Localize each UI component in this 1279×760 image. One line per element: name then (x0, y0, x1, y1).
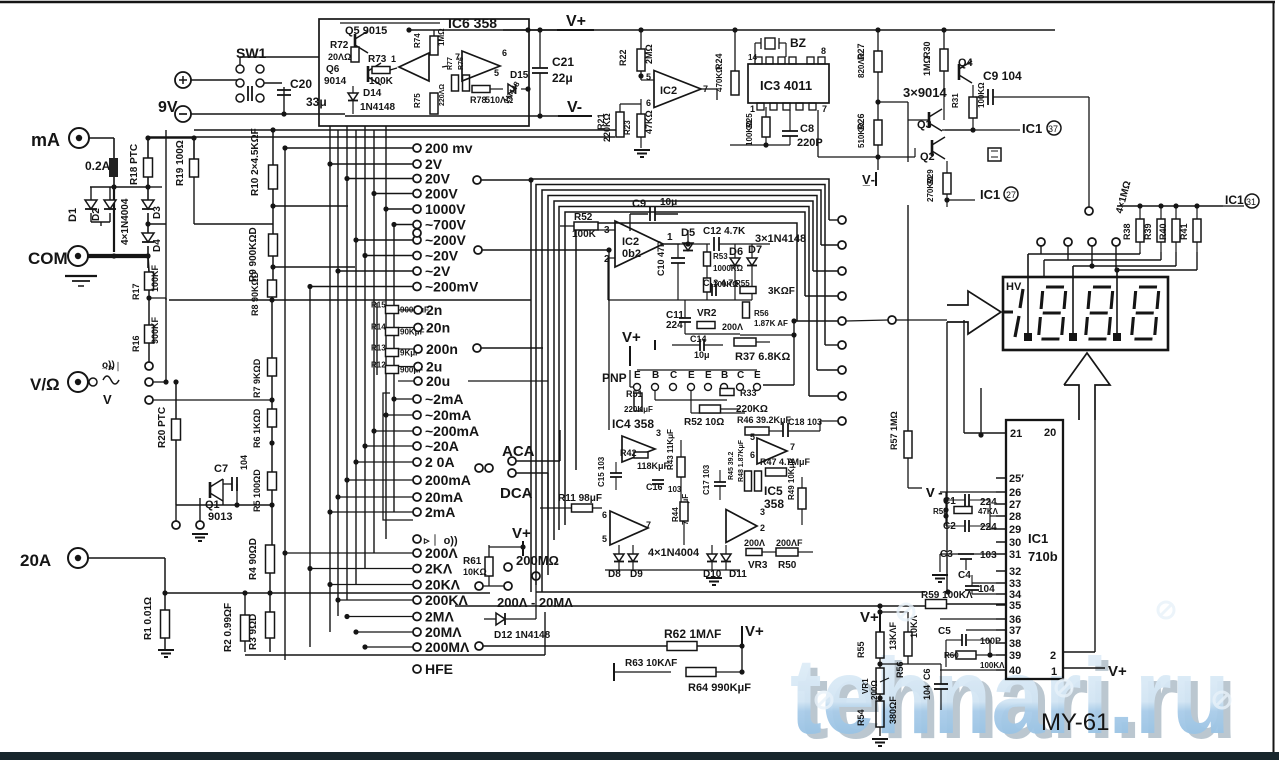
svg-text:R31: R31 (951, 93, 960, 108)
svg-text:224: 224 (980, 522, 997, 533)
svg-text:R14: R14 (371, 323, 386, 332)
svg-text:29: 29 (1009, 524, 1021, 536)
svg-text:470KΩ: 470KΩ (715, 66, 724, 92)
svg-text:1: 1 (667, 232, 673, 243)
svg-text:200MΛ: 200MΛ (425, 639, 470, 655)
svg-text:R18 PTC: R18 PTC (129, 144, 140, 185)
svg-text:IC3 4011: IC3 4011 (760, 78, 812, 93)
svg-text:R13: R13 (371, 344, 386, 353)
svg-text:D12 1N4148: D12 1N4148 (494, 630, 551, 641)
svg-text:C14: C14 (690, 334, 707, 344)
svg-text:C10 47P: C10 47P (656, 241, 666, 276)
svg-text:C12 4.7K: C12 4.7K (703, 226, 746, 237)
svg-text:R33: R33 (740, 388, 757, 398)
svg-text:R2 0.99ΩF: R2 0.99ΩF (223, 603, 234, 652)
svg-text:5: 5 (750, 432, 755, 442)
svg-text:2 0A: 2 0A (425, 454, 455, 470)
svg-text:35: 35 (1009, 600, 1021, 612)
svg-text:C7: C7 (214, 463, 228, 475)
svg-text:200V: 200V (425, 186, 458, 202)
svg-text:R11 98μF: R11 98μF (558, 493, 602, 504)
svg-text:~20mA: ~20mA (425, 407, 471, 423)
svg-text:27: 27 (1009, 499, 1021, 511)
svg-text:Q1: Q1 (205, 499, 220, 511)
svg-text:1MΩ: 1MΩ (922, 56, 932, 76)
svg-text:5: 5 (602, 534, 607, 544)
svg-text:1: 1 (750, 104, 755, 114)
svg-text:7: 7 (822, 104, 827, 114)
svg-text:31: 31 (1009, 549, 1021, 561)
svg-text:100KF: 100KF (150, 264, 160, 292)
svg-text:R40: R40 (1158, 223, 1168, 240)
svg-text:2MΛ: 2MΛ (425, 609, 454, 625)
svg-text:9014: 9014 (324, 76, 347, 87)
svg-text:C₁3 4.7: C₁3 4.7 (703, 278, 733, 288)
svg-text:6: 6 (602, 510, 607, 520)
svg-text:E: E (634, 370, 641, 381)
svg-text:33μ: 33μ (306, 95, 327, 109)
svg-text:~2V: ~2V (425, 263, 451, 279)
svg-text:C: C (670, 370, 677, 381)
svg-text:R57 1MΩ: R57 1MΩ (889, 411, 899, 450)
svg-text:2KΛ: 2KΛ (425, 561, 453, 577)
svg-text:820ΛΩ: 820ΛΩ (857, 52, 866, 78)
svg-text:20: 20 (1044, 427, 1056, 439)
svg-text:~700V: ~700V (425, 217, 467, 233)
svg-text:200ΛF: 200ΛF (776, 538, 803, 548)
svg-text:R49 10KμF: R49 10KμF (787, 459, 796, 500)
svg-text:IC1: IC1 (1022, 121, 1042, 136)
svg-text:D11: D11 (729, 569, 747, 580)
svg-text:30: 30 (1009, 537, 1021, 549)
svg-text:V̲-: V̲- (862, 172, 875, 187)
svg-text:7: 7 (790, 442, 795, 452)
svg-text:R30: R30 (922, 41, 932, 58)
svg-text:104: 104 (978, 584, 995, 595)
svg-text:2MΩ: 2MΩ (644, 44, 654, 64)
svg-text:R41: R41 (1179, 223, 1189, 240)
svg-text:IC5: IC5 (764, 484, 783, 498)
svg-text:220ΛΩ: 220ΛΩ (439, 84, 446, 106)
svg-text:3×9014: 3×9014 (903, 85, 948, 100)
svg-text:tehnari.ru: tehnari.ru (790, 635, 1230, 756)
svg-text:E: E (688, 370, 695, 381)
svg-text:V+: V+ (860, 609, 879, 626)
svg-text:2: 2 (760, 523, 765, 533)
svg-text:25′: 25′ (1009, 473, 1024, 485)
svg-text:R19 100Ω: R19 100Ω (175, 140, 186, 186)
svg-text:R10 2×4.5KΩF: R10 2×4.5KΩF (250, 128, 261, 196)
svg-text:31: 31 (1246, 197, 1256, 207)
svg-text:D9: D9 (630, 569, 643, 580)
svg-text:R74: R74 (413, 33, 422, 48)
svg-text:R38: R38 (1122, 223, 1132, 240)
svg-text:Q6: Q6 (326, 64, 340, 75)
svg-text:D7: D7 (748, 244, 762, 256)
svg-text:14: 14 (748, 53, 757, 62)
svg-text:D15: D15 (510, 70, 529, 81)
svg-text:C17 103: C17 103 (702, 464, 711, 495)
svg-text:10μ: 10μ (694, 350, 710, 360)
svg-text:220P: 220P (797, 137, 823, 149)
svg-text:100KΩ: 100KΩ (977, 82, 986, 108)
svg-text:510KΩ: 510KΩ (857, 122, 866, 148)
svg-text:2: 2 (604, 254, 610, 265)
svg-text:~20A: ~20A (425, 438, 459, 454)
svg-text:100K: 100K (572, 229, 597, 240)
svg-text:IC2: IC2 (622, 236, 639, 248)
svg-text:200mA: 200mA (425, 472, 471, 488)
svg-text:DCA: DCA (500, 485, 533, 502)
svg-text:2mA: 2mA (425, 504, 455, 520)
svg-text:32: 32 (1009, 566, 1021, 578)
svg-text:D8: D8 (608, 569, 621, 580)
svg-text:R20 PTC: R20 PTC (157, 407, 168, 448)
svg-text:V+: V+ (622, 329, 641, 346)
svg-text:C4: C4 (958, 570, 971, 581)
svg-text:200Λ: 200Λ (744, 538, 765, 548)
svg-text:3: 3 (760, 507, 765, 517)
svg-text:20KΛ: 20KΛ (425, 577, 461, 593)
svg-text:R62 1MΛF: R62 1MΛF (664, 627, 721, 641)
svg-text:R8 90KΩD: R8 90KΩD (250, 271, 260, 316)
svg-text:R61: R61 (463, 556, 482, 567)
svg-text:V+: V+ (745, 623, 764, 640)
svg-text:MY-61: MY-61 (1041, 709, 1109, 736)
svg-text:IC6 358: IC6 358 (448, 15, 497, 31)
svg-text:B: B (721, 370, 728, 381)
svg-text:IC1: IC1 (1028, 531, 1048, 546)
svg-text:IC1: IC1 (1225, 193, 1244, 207)
svg-text:HV: HV (1006, 281, 1022, 293)
svg-text:22μ: 22μ (552, 71, 573, 85)
svg-text:IC2: IC2 (660, 85, 677, 97)
svg-text:C18 103: C18 103 (788, 417, 822, 427)
svg-text:R75: R75 (413, 93, 422, 108)
svg-text:20u: 20u (426, 373, 450, 389)
svg-text:~200mA: ~200mA (425, 423, 479, 439)
svg-text:E: E (705, 370, 712, 381)
svg-text:220KΩ: 220KΩ (602, 113, 612, 142)
svg-text:1000V: 1000V (425, 201, 466, 217)
svg-text:200Λ: 200Λ (722, 322, 743, 332)
svg-text:C20: C20 (290, 77, 312, 91)
svg-text:37: 37 (1048, 124, 1058, 134)
svg-text:V+: V+ (566, 13, 586, 30)
svg-text:9013: 9013 (208, 511, 232, 523)
svg-text:20V: 20V (425, 171, 451, 187)
svg-text:IC4 358: IC4 358 (612, 417, 654, 431)
svg-text:10μ: 10μ (660, 197, 677, 208)
svg-text:C21: C21 (552, 55, 574, 69)
svg-text:o)): o)) (102, 360, 115, 371)
svg-text:3×1N4148: 3×1N4148 (755, 233, 806, 245)
svg-text:200Λ: 200Λ (425, 545, 458, 561)
svg-text:27: 27 (1006, 190, 1016, 200)
svg-text:R73: R73 (368, 54, 387, 65)
svg-text:BZ: BZ (790, 36, 806, 50)
svg-text:47KΩ: 47KΩ (644, 110, 654, 134)
svg-text:Q3: Q3 (917, 119, 932, 131)
svg-text:D1: D1 (67, 208, 79, 222)
svg-text:D6: D6 (729, 246, 743, 258)
svg-text:C9 104: C9 104 (983, 69, 1022, 83)
svg-text:47KΛ: 47KΛ (978, 507, 999, 516)
svg-text:R50: R50 (778, 560, 797, 571)
svg-text:R44: R44 (671, 507, 680, 522)
svg-text:200Λ - 20MΛ: 200Λ - 20MΛ (497, 595, 573, 610)
svg-text:200MΩ: 200MΩ (516, 553, 559, 568)
svg-text:mA: mA (31, 130, 60, 150)
svg-text:R64 990KμF: R64 990KμF (688, 682, 751, 694)
svg-text:6: 6 (646, 98, 651, 108)
svg-text:200n: 200n (426, 341, 458, 357)
svg-text:118KμF: 118KμF (637, 461, 670, 471)
svg-text:104: 104 (239, 455, 249, 470)
svg-text:9V: 9V (158, 99, 178, 116)
svg-text:V-: V- (567, 99, 582, 116)
svg-text:100K: 100K (369, 76, 394, 87)
svg-text:3KΩF: 3KΩF (768, 286, 795, 297)
svg-text:10KΩ: 10KΩ (463, 567, 487, 577)
svg-text:103: 103 (668, 485, 682, 494)
svg-text:R37 6.8KΩ: R37 6.8KΩ (735, 351, 790, 363)
svg-text:220KμF: 220KμF (624, 405, 653, 414)
svg-text:~200V: ~200V (425, 232, 467, 248)
svg-text:20A: 20A (20, 551, 51, 570)
svg-text:4×1N4004: 4×1N4004 (648, 547, 700, 559)
svg-text:R77: R77 (447, 57, 454, 70)
svg-text:6: 6 (750, 450, 755, 460)
svg-text:R12: R12 (371, 361, 386, 370)
svg-text:2n: 2n (426, 302, 442, 318)
svg-text:R7 9KΩD: R7 9KΩD (252, 358, 262, 398)
svg-text:R15: R15 (371, 301, 386, 310)
svg-text:R16: R16 (131, 335, 141, 352)
svg-text:4×1N4004: 4×1N4004 (120, 198, 131, 245)
svg-text:R51: R51 (626, 389, 643, 399)
svg-text:R53: R53 (713, 252, 728, 261)
svg-text:D4: D4 (152, 239, 163, 252)
svg-text:R23: R23 (623, 120, 632, 135)
svg-text:R6 1KΩD: R6 1KΩD (252, 408, 262, 448)
svg-text:C: C (737, 370, 744, 381)
svg-text:R4 90ΩD: R4 90ΩD (248, 538, 259, 580)
svg-text:20mA: 20mA (425, 489, 463, 505)
svg-text:C8: C8 (800, 123, 814, 135)
svg-text:1MΩ: 1MΩ (437, 28, 446, 46)
svg-text:COM: COM (28, 249, 68, 268)
svg-text:R1 0.01Ω: R1 0.01Ω (143, 597, 154, 640)
svg-text:20ΛΩ: 20ΛΩ (328, 52, 351, 62)
svg-text:28: 28 (1009, 511, 1021, 523)
svg-text:B: B (652, 370, 659, 381)
svg-text:200 mv: 200 mv (425, 140, 473, 156)
svg-text:IC1: IC1 (980, 187, 1000, 202)
svg-text:5: 5 (494, 68, 499, 78)
svg-text:1N4148: 1N4148 (360, 102, 395, 113)
svg-text:~200mV: ~200mV (425, 279, 479, 295)
svg-text:R42: R42 (620, 448, 637, 458)
svg-text:R17: R17 (131, 283, 141, 300)
svg-text:710b: 710b (1028, 549, 1058, 564)
svg-text:D3: D3 (152, 206, 163, 219)
svg-text:C15 103: C15 103 (597, 456, 606, 487)
svg-text:3: 3 (656, 428, 661, 438)
svg-text:V: V (103, 392, 112, 407)
svg-text:0b2: 0b2 (622, 248, 641, 260)
svg-text:C9: C9 (632, 198, 646, 210)
svg-text:ACA: ACA (502, 443, 535, 460)
svg-text:R39: R39 (1143, 223, 1153, 240)
svg-text:20n: 20n (426, 320, 450, 336)
svg-text:26: 26 (1009, 487, 1021, 499)
svg-text:6: 6 (502, 48, 507, 58)
svg-text:R55: R55 (735, 279, 750, 288)
svg-text:103: 103 (980, 550, 997, 561)
svg-text:R56: R56 (754, 309, 769, 318)
svg-text:R47 4.7MμF: R47 4.7MμF (760, 457, 811, 467)
svg-text:HFE: HFE (425, 661, 453, 677)
svg-text:PNP: PNP (602, 371, 627, 385)
svg-text:R45 39.2: R45 39.2 (728, 451, 735, 480)
svg-text:VR3: VR3 (748, 560, 768, 571)
svg-text:V/Ω: V/Ω (30, 375, 60, 394)
svg-text:D2: D2 (91, 208, 102, 221)
svg-text:~2mA: ~2mA (425, 391, 464, 407)
svg-text:R52 10Ω: R52 10Ω (684, 417, 724, 428)
svg-text:7: 7 (646, 520, 651, 530)
svg-text:20MΛ: 20MΛ (425, 624, 462, 640)
svg-text:V+: V+ (512, 525, 531, 542)
svg-text:R43 11KμF: R43 11KμF (666, 429, 675, 470)
svg-text:Q4: Q4 (958, 57, 974, 69)
svg-text:Q5 9015: Q5 9015 (345, 25, 387, 37)
svg-text:1: 1 (391, 54, 396, 64)
svg-text:R22: R22 (618, 49, 628, 66)
svg-text:Q2: Q2 (920, 151, 935, 163)
svg-text:900KF: 900KF (150, 316, 160, 344)
svg-text:R72: R72 (330, 40, 349, 51)
svg-text:0.2A: 0.2A (85, 159, 111, 173)
svg-text:VR2: VR2 (697, 308, 717, 319)
svg-text:21: 21 (1010, 428, 1022, 440)
svg-text:E: E (754, 370, 761, 381)
svg-text:D14: D14 (363, 88, 382, 99)
svg-text:100KΩ: 100KΩ (745, 120, 754, 146)
svg-text:~20V: ~20V (425, 248, 459, 264)
svg-text:8: 8 (821, 46, 826, 56)
svg-text:7: 7 (455, 52, 460, 62)
svg-text:3: 3 (604, 225, 610, 236)
svg-text:270KΩ: 270KΩ (926, 176, 935, 202)
svg-text:R63 10KΛF: R63 10KΛF (625, 658, 677, 669)
svg-text:1.87K AF: 1.87K AF (754, 319, 788, 328)
svg-text:R52: R52 (574, 212, 593, 223)
svg-text:358: 358 (764, 497, 784, 511)
